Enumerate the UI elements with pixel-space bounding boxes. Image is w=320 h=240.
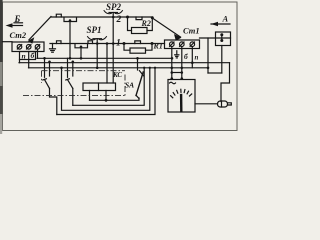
svg-text:1: 1 [116, 39, 121, 49]
svg-text:Б: Б [14, 14, 21, 24]
svg-text:SP2: SP2 [106, 2, 122, 12]
svg-text:R1: R1 [153, 42, 163, 51]
svg-text:б: б [31, 51, 35, 60]
svg-text:б: б [184, 52, 188, 61]
svg-text:п: п [195, 54, 199, 62]
svg-text:Ст1: Ст1 [183, 26, 200, 36]
svg-text:2: 2 [116, 15, 122, 25]
svg-text:SP1: SP1 [87, 25, 102, 35]
svg-text:КС: КС [112, 71, 122, 79]
svg-text:Ст2: Ст2 [10, 30, 27, 40]
svg-text:R2: R2 [141, 19, 151, 28]
svg-text:SA: SA [125, 81, 134, 90]
svg-text:п: п [22, 52, 26, 61]
svg-text:А: А [222, 14, 229, 24]
